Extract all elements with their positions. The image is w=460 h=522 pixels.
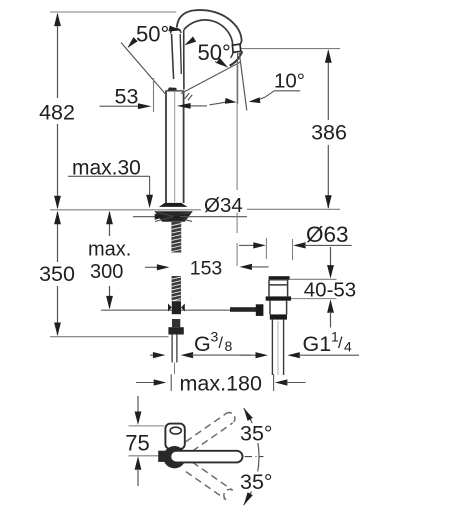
svg-text:53: 53: [115, 85, 139, 109]
svg-text:8: 8: [225, 338, 233, 354]
svg-text:Ø63: Ø63: [306, 222, 349, 247]
svg-text:153: 153: [190, 258, 223, 280]
svg-text:G1: G1: [303, 332, 332, 356]
svg-text:40-53: 40-53: [304, 279, 356, 302]
svg-text:4: 4: [344, 339, 352, 355]
svg-text:G: G: [194, 332, 211, 356]
svg-text:482: 482: [39, 101, 75, 125]
svg-text:386: 386: [311, 121, 347, 145]
svg-text:75: 75: [125, 431, 149, 456]
svg-text:3: 3: [211, 329, 219, 345]
svg-text:10°: 10°: [274, 70, 305, 93]
svg-text:350: 350: [39, 262, 75, 286]
svg-text:50°: 50°: [136, 22, 169, 47]
svg-text:35°: 35°: [240, 470, 273, 494]
svg-text:/: /: [338, 335, 343, 352]
svg-text:50°: 50°: [198, 40, 231, 65]
svg-text:max.: max.: [88, 239, 131, 261]
svg-text:300: 300: [90, 261, 123, 283]
svg-text:/: /: [219, 335, 224, 352]
svg-text:max.180: max.180: [180, 372, 263, 396]
svg-text:35°: 35°: [240, 422, 273, 446]
